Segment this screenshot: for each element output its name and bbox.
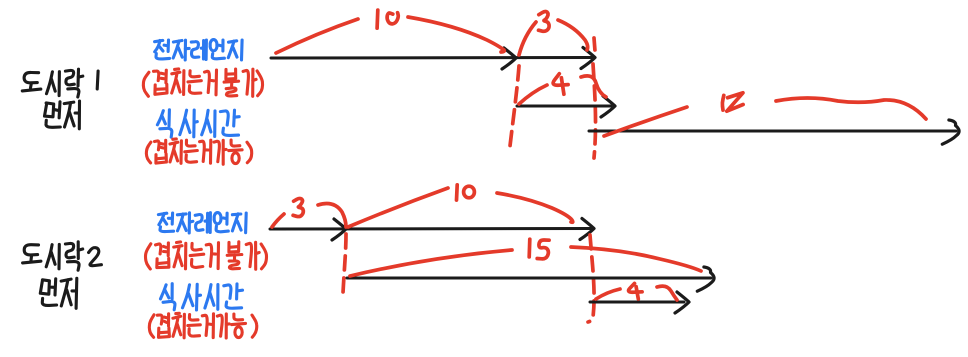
- arc label 3 — red, right stroke: [558, 20, 588, 50]
- timeline: meal, lunchbox-2 start (15 min) — black arrow: [589, 120, 959, 144]
- number 15 — red: [529, 239, 549, 259]
- label: (cannot overlap) (겹치는거 불가) — red: [146, 242, 267, 269]
- label: (overlap ok) (겹치는거가능) — red: [146, 139, 251, 164]
- label: first (먼저) — black handwriting: [45, 101, 80, 129]
- label: microwave (전자레인지) — blue: [155, 40, 243, 60]
- label: (overlap ok) (겹치는거가능) — red: [149, 313, 256, 338]
- arc label 10 — red, right stroke: [408, 17, 504, 52]
- dashed guide line at t=13 — red: [588, 235, 594, 322]
- timeline: meal, lunchbox-1 (4 min) — black arrow: [517, 96, 615, 117]
- arc label 15 — red, right wavy stroke: [776, 98, 926, 119]
- arc label 15 — red, left stroke: [350, 250, 512, 276]
- dashed guide line at t=10 — red: [510, 66, 519, 146]
- arc label 4 — red, left stroke: [596, 289, 620, 299]
- number 10 — red: [377, 10, 398, 28]
- arc label 10 — red, left stroke: [276, 19, 358, 53]
- label: (cannot overlap) (겹치는거 불가) — red: [143, 69, 262, 96]
- number 4 — red: [629, 283, 643, 299]
- arc label 10 — red, right stroke: [497, 193, 573, 222]
- label: meal time (식사시간) — blue: [161, 284, 243, 310]
- number 3 — red: [293, 198, 303, 216]
- timeline: meal, lunchbox-1 end (4 min) — black arrow: [590, 292, 689, 313]
- arc label 3 — red, left tick: [272, 214, 284, 227]
- dashed guide line at t=3 — red: [343, 234, 346, 293]
- number 4 — red: [553, 74, 568, 95]
- label: lunchbox 1 (도시락 1) — black handwriting: [22, 69, 98, 97]
- arc label 3 — red, right curl: [318, 204, 346, 227]
- arc label 3 — red, left stroke: [519, 22, 536, 55]
- arc label 15 — red, right stroke: [571, 247, 701, 271]
- label: meal time (식사시간) — blue: [157, 110, 239, 137]
- timeline: microwave, lunchbox-2 (3 then 10) — black arrow: [270, 219, 594, 241]
- arc label 4 — red, right curl: [581, 76, 606, 97]
- number 15 — red: [722, 93, 743, 111]
- label: first (먼저) — black handwriting: [40, 278, 77, 308]
- arc label 4 — red, right curl: [657, 286, 677, 300]
- number 10 — red: [457, 185, 475, 200]
- timeline: microwave, lunchbox-1 (10 min) — black arrow: [271, 48, 595, 70]
- dashed guide line at t=13 — red: [593, 64, 596, 158]
- label: lunchbox 2 (도시락 2) — black handwriting: [23, 242, 102, 270]
- arc label 15 — red, left stroke: [604, 107, 687, 136]
- label: microwave (전자레인지) — blue: [158, 213, 246, 233]
- dashed guide at t=13 upper tick — red: [594, 38, 595, 51]
- arc label 10 — red, left stroke: [348, 188, 448, 227]
- number 3 — red: [539, 11, 550, 31]
- arc label 4 — red, left stroke: [519, 85, 547, 104]
- timeline: meal, lunchbox-2 (15 min) — black arrow: [347, 267, 714, 291]
